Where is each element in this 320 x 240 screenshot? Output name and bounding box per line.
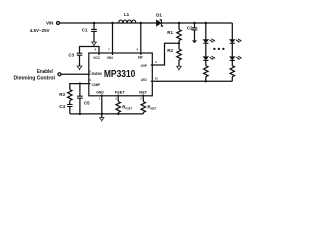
svg-text:4.5V~25V: 4.5V~25V <box>30 28 50 33</box>
wire SW pin lead <box>140 23 142 55</box>
svg-text:Dimming Control: Dimming Control <box>14 76 56 82</box>
wire string1 bottom lead <box>205 77 207 82</box>
wire FSET lead <box>117 95 119 102</box>
capacitor C5 <box>79 84 81 114</box>
svg-text:COMP: COMP <box>92 83 101 87</box>
ground (C1) <box>92 42 97 45</box>
svg-text:R1: R1 <box>167 30 173 35</box>
dots ellipsis between strings <box>213 48 215 50</box>
svg-text:2: 2 <box>140 97 142 101</box>
wire string2 top <box>231 23 233 40</box>
node string1 bottom junction <box>205 80 207 82</box>
svg-text:EN/DIM: EN/DIM <box>92 72 102 76</box>
svg-text:FSET: FSET <box>126 106 133 110</box>
wire C2 leads <box>194 23 196 40</box>
svg-text:FSET: FSET <box>115 90 126 94</box>
resistor R3 <box>68 90 72 101</box>
capacitor C1 <box>91 29 97 31</box>
svg-text:1: 1 <box>99 97 101 101</box>
wire R1 top lead <box>178 23 180 30</box>
resistor string2 ballast <box>230 66 234 77</box>
wire ISET lead <box>142 95 144 102</box>
wire EN/DIM lead <box>61 73 90 75</box>
pin number marks <box>89 48 158 101</box>
LED D2 (string1 top) <box>203 40 208 43</box>
svg-text:GND: GND <box>96 90 104 94</box>
resistor R_ISET <box>141 102 145 113</box>
ground (R2) <box>177 66 182 69</box>
wire R1-R2 link <box>178 41 180 50</box>
node C2 junction <box>193 22 195 24</box>
svg-text:R3: R3 <box>59 92 65 97</box>
svg-text:9: 9 <box>155 60 157 64</box>
svg-text:C1: C1 <box>82 27 88 32</box>
svg-text:C2: C2 <box>187 26 193 31</box>
svg-text:ISET: ISET <box>151 106 157 110</box>
diode D1 <box>156 20 161 27</box>
svg-text:VIN: VIN <box>46 20 53 25</box>
wire string2 bottom lead <box>231 77 233 82</box>
svg-text:Enable/: Enable/ <box>37 69 54 75</box>
svg-text:OVP: OVP <box>141 64 147 68</box>
wire string2 lower <box>231 60 233 65</box>
wire string2 mid <box>231 43 233 57</box>
svg-text:VIN: VIN <box>107 56 113 60</box>
wire string1 top <box>205 23 207 40</box>
node Enable terminal <box>58 73 61 76</box>
wire LED pin bus <box>151 80 233 82</box>
inductor L1 <box>119 20 136 23</box>
svg-text:SW: SW <box>138 56 143 60</box>
wire VIN pin lead <box>112 23 114 55</box>
svg-text:4: 4 <box>89 78 91 82</box>
svg-text:C5: C5 <box>84 100 90 105</box>
capacitor C2 <box>192 28 198 30</box>
node C1 junction <box>93 22 95 24</box>
capacitor C3 <box>77 53 83 55</box>
wire VCC lead <box>80 47 100 56</box>
LED D5 (string2 bottom) <box>230 57 235 60</box>
wire C1 lead <box>93 23 95 42</box>
resistor R1 <box>177 30 181 41</box>
svg-text:C3: C3 <box>68 53 74 58</box>
node R1 junction <box>178 22 180 24</box>
ground (C2 arrow style) <box>192 40 197 43</box>
svg-text:C4: C4 <box>59 104 65 109</box>
wire R_ISET bottom <box>142 113 144 114</box>
wire string1 lower <box>205 60 207 65</box>
wire COMP lead <box>70 84 91 90</box>
wire string1 mid <box>205 43 207 57</box>
wire main top rail <box>60 22 233 24</box>
node FSET junction <box>117 113 119 115</box>
wire R_FSET bottom <box>117 113 119 114</box>
svg-text:R2: R2 <box>167 48 173 53</box>
wire bottom bus <box>70 113 144 115</box>
wire C3 bottom lead <box>79 55 81 66</box>
node LED string 1 top junction <box>205 22 207 24</box>
wire R2 bottom lead <box>178 60 180 66</box>
wire GND pin lead <box>101 95 103 118</box>
svg-text:L1: L1 <box>124 12 130 17</box>
node GND junction <box>101 113 103 115</box>
svg-text:ISET: ISET <box>139 90 148 94</box>
wire OVP route <box>151 43 179 65</box>
ground (GND pin) <box>100 118 104 121</box>
svg-text:10: 10 <box>155 76 158 80</box>
svg-text:6: 6 <box>95 48 97 52</box>
op-amp U1 MP3310 body <box>89 53 153 96</box>
resistor R_FSET <box>116 102 120 113</box>
svg-text:7: 7 <box>108 48 110 52</box>
resistor R2 <box>177 49 181 60</box>
node VIN input terminal <box>57 22 60 25</box>
node C5 bottom junction <box>79 113 81 115</box>
resistor string1 ballast <box>204 66 208 77</box>
LED D3 (string1 bottom) <box>203 57 208 60</box>
svg-text:LED: LED <box>141 78 147 82</box>
svg-text:8: 8 <box>137 48 139 52</box>
node OVP divider junction <box>178 42 180 44</box>
wire R3-C4 link <box>69 101 71 114</box>
LED D4 (string2 top) <box>230 40 235 43</box>
node C5 junction top <box>79 82 81 84</box>
capacitor C4 <box>67 105 73 107</box>
svg-text:MP3310: MP3310 <box>104 69 136 80</box>
node VIN pin junction <box>111 22 113 24</box>
node SW junction <box>140 22 142 24</box>
svg-text:D1: D1 <box>156 12 162 17</box>
svg-text:VCC: VCC <box>93 56 100 60</box>
ground (C3) <box>77 66 82 69</box>
svg-text:3: 3 <box>115 97 117 101</box>
